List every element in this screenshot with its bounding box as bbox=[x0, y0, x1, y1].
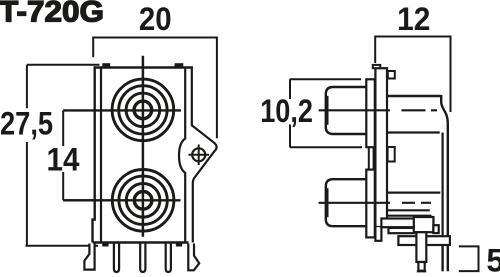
side barrel 2 center line bbox=[319, 202, 431, 204]
dim 14 lines bbox=[63, 110, 94, 200]
flange outer edge with bulge bbox=[192, 68, 217, 243]
bottom-left tab bbox=[102, 243, 108, 247]
side body inner hline 1 bbox=[388, 131, 440, 133]
front body top edge bbox=[94, 66, 193, 68]
side body inner hline 3 bbox=[388, 209, 430, 211]
side body step line bbox=[388, 216, 431, 219]
side barrel 2 crosshair tick bbox=[326, 188, 328, 217]
side pin column bbox=[416, 232, 426, 262]
dim 27.5 lines bbox=[26, 65, 100, 246]
jack J2 horizontal center line bbox=[63, 199, 180, 201]
front body left inner line bbox=[100, 68, 102, 243]
jack J1 center ring bbox=[134, 101, 152, 119]
bottom-right tab bbox=[176, 243, 182, 247]
flange screw hole bbox=[192, 148, 205, 161]
side step band 2 bbox=[389, 228, 415, 233]
side step band bbox=[381, 219, 433, 228]
front body bottom edge bbox=[93, 241, 189, 243]
side barrel 1 center line bbox=[319, 109, 437, 111]
jack J1 vertical center line (shared with J2) bbox=[142, 56, 145, 237]
front pin 1 (bent left) bbox=[84, 244, 94, 270]
jack J2 ring 2 bbox=[119, 176, 167, 224]
front body left edge with bottom step bbox=[93, 66, 95, 242]
side body inner right line bbox=[442, 133, 444, 236]
svg-text:20: 20 bbox=[139, 1, 172, 37]
top-right mounting tab bbox=[175, 63, 184, 67]
side bracket bbox=[375, 68, 387, 227]
front pin 4 bbox=[166, 243, 171, 272]
side body outer right edge bbox=[441, 95, 448, 236]
side mid notch bbox=[388, 147, 395, 162]
side top notch bbox=[388, 71, 395, 79]
plate strip between washers bbox=[369, 147, 374, 169]
dim 12 lines bbox=[375, 37, 450, 113]
side body top edge bbox=[388, 95, 441, 97]
svg-text:14: 14 bbox=[47, 141, 80, 177]
dim 5 lines bbox=[459, 246, 479, 271]
side bracket top tab bbox=[373, 65, 381, 68]
front pin 2 bbox=[114, 243, 119, 272]
side body inner hline 2 bbox=[388, 192, 441, 194]
side pin neck bbox=[418, 262, 424, 271]
svg-text:T-720G: T-720G bbox=[0, 0, 104, 29]
side lug bar bbox=[398, 236, 450, 245]
dim 20 lines bbox=[93, 38, 217, 139]
side washer 1 bbox=[366, 79, 375, 147]
jack J1 ring 3 bbox=[126, 93, 160, 127]
flange screw hole crosshair bbox=[189, 145, 210, 166]
front body right edge with arc notch bbox=[179, 68, 185, 243]
svg-text:10,2: 10,2 bbox=[260, 93, 313, 129]
dim 10.2 lines bbox=[290, 79, 362, 147]
side right vlines below lug bbox=[443, 245, 448, 271]
top-left mounting tab bbox=[102, 63, 110, 67]
side pin head bbox=[414, 217, 434, 232]
jack J2 outer ring bbox=[112, 170, 174, 232]
side right vline outer below body bbox=[443, 235, 448, 238]
svg-text:27,5: 27,5 bbox=[0, 106, 53, 142]
side pin end cap bbox=[417, 270, 426, 272]
front pin 5 (bent right) bbox=[188, 244, 199, 271]
svg-text:5: 5 bbox=[486, 243, 500, 277]
jack J1 ring 2 bbox=[119, 86, 167, 134]
jack J1 outer ring bbox=[112, 79, 174, 141]
side barrel 2 bbox=[326, 179, 366, 226]
svg-text:12: 12 bbox=[397, 1, 430, 37]
front pin 3 bbox=[140, 243, 145, 272]
jack J1 horizontal center line bbox=[63, 109, 181, 111]
side bracket foot bbox=[375, 227, 381, 241]
jack J2 center ring bbox=[134, 192, 152, 210]
jack J2 ring 3 bbox=[126, 184, 160, 218]
side right step notch bbox=[433, 225, 438, 233]
side washer 2 bbox=[366, 170, 375, 238]
side barrel 1 crosshair tick bbox=[326, 96, 328, 125]
side barrel 1 bbox=[326, 87, 366, 134]
